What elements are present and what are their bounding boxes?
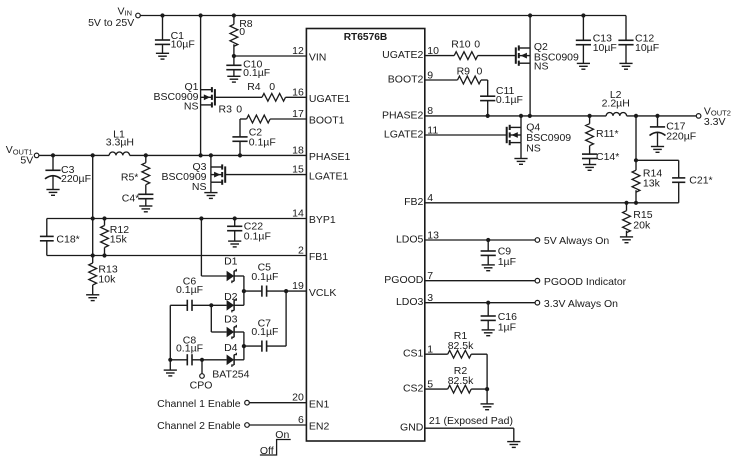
svg-text:LGATE2: LGATE2	[384, 128, 424, 140]
svg-text:UGATE2: UGATE2	[382, 49, 423, 61]
svg-text:82.5k: 82.5k	[448, 375, 474, 387]
svg-text:On: On	[275, 429, 289, 441]
svg-text:LDO3: LDO3	[396, 296, 424, 308]
svg-text:BOOT2: BOOT2	[388, 73, 424, 85]
svg-text:R9: R9	[457, 65, 471, 77]
svg-text:NS: NS	[192, 181, 207, 193]
svg-text:0.1µF: 0.1µF	[244, 231, 271, 243]
svg-text:R5*: R5*	[121, 172, 139, 184]
svg-text:20k: 20k	[633, 220, 651, 232]
svg-text:0.1µF: 0.1µF	[176, 343, 203, 355]
svg-text:FB1: FB1	[309, 251, 328, 263]
svg-text:0.1µF: 0.1µF	[496, 94, 523, 106]
svg-text:10k: 10k	[98, 273, 116, 285]
svg-text:NS: NS	[184, 101, 199, 113]
svg-text:0: 0	[236, 104, 242, 116]
svg-text:VIN: VIN	[309, 52, 327, 64]
svg-text:VIN: VIN	[118, 5, 133, 17]
svg-text:0: 0	[474, 39, 480, 51]
svg-text:14: 14	[292, 208, 304, 220]
svg-text:13k: 13k	[643, 177, 661, 189]
svg-text:C21*: C21*	[689, 174, 712, 186]
svg-text:LGATE1: LGATE1	[309, 170, 349, 182]
svg-text:NS: NS	[526, 143, 541, 155]
svg-text:15: 15	[292, 164, 304, 176]
svg-text:3.3V: 3.3V	[704, 116, 726, 128]
svg-text:NS: NS	[534, 60, 549, 72]
svg-text:EN2: EN2	[309, 421, 330, 433]
svg-text:D4: D4	[224, 342, 238, 354]
svg-text:C14*: C14*	[596, 151, 619, 163]
svg-text:CPO: CPO	[190, 380, 213, 392]
svg-text:D2: D2	[224, 291, 238, 303]
svg-text:FB2: FB2	[404, 196, 423, 208]
svg-text:R10: R10	[451, 39, 470, 51]
svg-text:21 (Exposed Pad): 21 (Exposed Pad)	[429, 415, 513, 427]
svg-text:16: 16	[292, 86, 304, 98]
svg-text:D3: D3	[224, 313, 238, 325]
svg-text:CS1: CS1	[403, 348, 424, 360]
svg-text:VCLK: VCLK	[309, 287, 336, 299]
svg-text:LDO5: LDO5	[396, 233, 424, 245]
svg-text:UGATE1: UGATE1	[309, 93, 350, 105]
svg-text:PHASE1: PHASE1	[309, 151, 351, 163]
svg-text:3.3V Always On: 3.3V Always On	[544, 298, 618, 310]
svg-text:BYP1: BYP1	[309, 214, 336, 226]
svg-text:0: 0	[269, 81, 275, 93]
svg-text:20: 20	[292, 392, 304, 404]
svg-text:0: 0	[239, 26, 245, 38]
svg-text:GND: GND	[400, 422, 424, 434]
svg-text:C4*: C4*	[122, 192, 140, 204]
svg-text:C18*: C18*	[56, 233, 79, 245]
svg-text:2: 2	[298, 245, 304, 257]
svg-text:0.1µF: 0.1µF	[251, 271, 278, 283]
svg-text:10µF: 10µF	[171, 38, 195, 50]
svg-text:18: 18	[292, 144, 304, 156]
svg-text:RT6576B: RT6576B	[344, 32, 388, 43]
svg-text:0.1µF: 0.1µF	[251, 326, 278, 338]
svg-text:0: 0	[477, 65, 483, 77]
svg-text:R11*: R11*	[596, 128, 619, 140]
svg-text:5V to 25V: 5V to 25V	[88, 17, 134, 29]
svg-text:Channel 1 Enable: Channel 1 Enable	[157, 398, 241, 410]
svg-text:17: 17	[292, 108, 304, 120]
svg-text:3.3µH: 3.3µH	[106, 137, 134, 149]
svg-text:19: 19	[292, 280, 304, 292]
svg-text:5V Always On: 5V Always On	[544, 235, 610, 247]
svg-text:R4: R4	[247, 81, 261, 93]
svg-text:BAT254: BAT254	[212, 369, 249, 381]
svg-text:CS2: CS2	[403, 383, 424, 395]
svg-text:EN1: EN1	[309, 398, 330, 410]
svg-text:15k: 15k	[110, 234, 128, 246]
svg-text:0.1µF: 0.1µF	[243, 67, 270, 79]
svg-text:R3: R3	[219, 104, 233, 116]
svg-text:10µF: 10µF	[635, 42, 659, 54]
svg-text:82.5k: 82.5k	[448, 340, 474, 352]
svg-text:PGOOD: PGOOD	[384, 274, 424, 286]
svg-text:6: 6	[298, 414, 304, 426]
svg-text:5V: 5V	[20, 154, 33, 166]
svg-text:2.2µH: 2.2µH	[602, 98, 630, 110]
svg-text:D1: D1	[224, 255, 238, 267]
svg-text:1µF: 1µF	[498, 322, 516, 334]
svg-text:0.1µF: 0.1µF	[176, 284, 203, 296]
svg-text:BOOT1: BOOT1	[309, 115, 345, 127]
svg-text:10µF: 10µF	[593, 42, 617, 54]
svg-text:220µF: 220µF	[666, 131, 696, 143]
svg-text:PHASE2: PHASE2	[382, 109, 424, 121]
svg-text:220µF: 220µF	[61, 173, 91, 185]
svg-text:12: 12	[292, 45, 304, 57]
svg-text:0.1µF: 0.1µF	[249, 136, 276, 148]
svg-text:Channel 2 Enable: Channel 2 Enable	[157, 420, 241, 432]
svg-text:1µF: 1µF	[498, 256, 516, 268]
svg-text:Off: Off	[260, 445, 274, 457]
svg-text:PGOOD Indicator: PGOOD Indicator	[544, 276, 627, 288]
